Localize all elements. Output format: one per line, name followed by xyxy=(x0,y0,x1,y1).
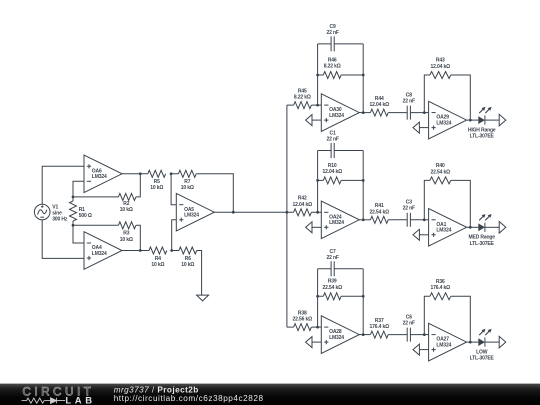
LED MED Range LTL-307EE xyxy=(470,214,499,232)
svg-text:10 kΩ: 10 kΩ xyxy=(151,262,164,268)
junction R39 right xyxy=(362,295,365,298)
wire feedback right column OA30 xyxy=(362,44,364,113)
svg-text:LTL-307EE: LTL-307EE xyxy=(470,134,495,140)
op-amp OA28 LM324 xyxy=(321,316,359,354)
label C6 xyxy=(403,314,415,326)
resistor R5 10k xyxy=(148,170,166,177)
svg-text:R10: R10 xyxy=(328,163,337,169)
resistor R46 8.22 kΩ feedback xyxy=(318,72,364,79)
svg-text:LM324: LM324 xyxy=(92,251,107,257)
svg-text:R38: R38 xyxy=(298,311,307,317)
junction OA29 output xyxy=(469,119,472,122)
svg-text:C3: C3 xyxy=(406,200,412,206)
svg-text:C8: C8 xyxy=(406,92,412,98)
svg-text:R5: R5 xyxy=(154,179,160,185)
voltage source V1 sine 300 Hz xyxy=(34,204,50,220)
svg-text:12.04 kΩ: 12.04 kΩ xyxy=(431,64,451,70)
svg-text:C6: C6 xyxy=(406,314,412,320)
junction R46 right xyxy=(362,74,365,77)
svg-text:176.4 kΩ: 176.4 kΩ xyxy=(431,285,451,291)
svg-text:V1: V1 xyxy=(52,204,58,210)
svg-text:HIGH Range: HIGH Range xyxy=(468,128,496,134)
wire OA5 output to input bus xyxy=(214,211,287,213)
svg-text:22.54 kΩ: 22.54 kΩ xyxy=(431,169,451,175)
svg-text:R44: R44 xyxy=(375,96,384,102)
wire R6 to ground xyxy=(197,251,202,296)
junction R46 left xyxy=(316,74,319,77)
label R5 10 kohm xyxy=(150,179,163,191)
op-amp OA6 LM324 xyxy=(84,155,122,193)
junction OA1 output xyxy=(469,226,472,229)
label R1 500 ohm xyxy=(79,207,92,219)
svg-text:LTL-307EE: LTL-307EE xyxy=(470,356,495,362)
svg-text:http://circuitlab.com/c6z38pp4: http://circuitlab.com/c6z38pp4c2828 xyxy=(114,394,264,403)
junction R4/R6 node xyxy=(170,249,173,252)
wire OA5 + input to R4/R6 node xyxy=(172,220,177,251)
svg-text:R42: R42 xyxy=(298,196,307,202)
label R3 10 kohm xyxy=(120,231,133,243)
wire OA24 output xyxy=(359,219,370,221)
resistor R39 22.54 kΩ feedback xyxy=(318,293,364,300)
svg-text:C1: C1 xyxy=(330,131,336,137)
label R41 xyxy=(370,203,390,215)
svg-text:R45: R45 xyxy=(298,89,307,95)
CircuitLab logo doodle (resistor + diode) xyxy=(22,398,66,404)
junction OA6 output xyxy=(139,172,142,175)
svg-text:R6: R6 xyxy=(185,256,191,262)
wire feedback left column OA24 xyxy=(317,151,319,213)
label R36 xyxy=(431,279,451,291)
label C9 xyxy=(326,24,338,36)
svg-text:10 kΩ: 10 kΩ xyxy=(120,207,133,213)
LED LOW LTL-307EE xyxy=(470,329,499,347)
svg-text:LM324: LM324 xyxy=(329,335,344,341)
resistor R7 10k feedback OA5 xyxy=(171,170,196,177)
svg-text:R36: R36 xyxy=(436,279,445,285)
input terminal flag OA24 + xyxy=(306,222,322,233)
junction OA1 - input xyxy=(423,218,426,221)
svg-text:R1: R1 xyxy=(79,207,85,213)
resistor R4 10k xyxy=(149,247,167,254)
input terminal flag OA30 + xyxy=(306,115,322,126)
svg-text:R39: R39 xyxy=(328,279,337,285)
junction R39 left xyxy=(316,295,319,298)
resistor R40 22.54 kΩ feedback xyxy=(430,177,451,184)
svg-text:R2: R2 xyxy=(123,201,129,207)
label R40 xyxy=(431,163,451,175)
capacitor C3 22 nF xyxy=(388,213,424,227)
label R4 10 kohm xyxy=(151,256,164,268)
svg-text:22 nF: 22 nF xyxy=(326,255,338,261)
label R45 xyxy=(294,89,311,101)
wire R7 to OA5 output xyxy=(196,174,233,212)
svg-text:LM324: LM324 xyxy=(436,121,451,127)
op-amp OA1 LM324 xyxy=(429,209,467,247)
junction bus to MED stage xyxy=(286,211,289,214)
resistor R2 10k feedback OA6 xyxy=(73,193,136,200)
junction OA4 output xyxy=(139,249,142,252)
svg-text:22 nF: 22 nF xyxy=(403,321,415,327)
wire feedback right column OA28 xyxy=(362,269,364,335)
label R43 xyxy=(431,58,451,70)
junction node A (R1 top) xyxy=(72,196,75,199)
resistor R36 176.4 kΩ feedback xyxy=(430,293,451,300)
label C3 xyxy=(403,200,415,212)
junction OA27 - input xyxy=(423,333,426,336)
svg-text:LM324: LM324 xyxy=(436,343,451,349)
wire OA27 output xyxy=(467,341,471,343)
wire feedback right column OA24 xyxy=(362,151,364,220)
svg-text:R4: R4 xyxy=(155,256,161,262)
junction OA28 - input xyxy=(316,326,319,329)
label HIGH Range xyxy=(468,128,496,140)
label R46 xyxy=(324,57,341,69)
capacitor C8 22 nF xyxy=(388,106,424,120)
svg-text:LM324: LM324 xyxy=(92,174,107,180)
junction OA30 - input xyxy=(316,104,319,107)
wire V1 bottom to OA4 + input xyxy=(42,220,84,259)
resistor R37 176.4 kΩ xyxy=(370,331,388,338)
output terminal LOW xyxy=(499,336,506,348)
svg-text:LM324: LM324 xyxy=(329,113,344,119)
wire OA28 output xyxy=(359,334,370,336)
output terminal MED Range xyxy=(499,222,506,234)
svg-text:R7: R7 xyxy=(184,179,190,185)
svg-text:LM324: LM324 xyxy=(184,213,199,219)
svg-text:R3: R3 xyxy=(123,231,129,237)
junction OA28 output xyxy=(362,333,365,336)
label R44 xyxy=(370,96,390,108)
wire feedback loop OA27 xyxy=(424,296,470,342)
junction OA24 - input xyxy=(316,211,319,214)
op-amp OA4 LM324 xyxy=(84,232,122,270)
label R37 xyxy=(370,318,390,330)
resistor R42 12.04 kΩ input xyxy=(287,209,318,216)
svg-text:10 kΩ: 10 kΩ xyxy=(181,262,194,268)
wire R3 to OA4 output xyxy=(136,225,140,250)
svg-text:300 Hz: 300 Hz xyxy=(52,217,68,223)
wire to OA28 - input xyxy=(318,326,322,328)
label R10 xyxy=(322,163,342,175)
svg-text:LAB: LAB xyxy=(65,395,95,405)
op-amp OA30 LM324 xyxy=(321,94,359,132)
label V1 sine 300 Hz xyxy=(52,204,62,216)
svg-text:R41: R41 xyxy=(375,203,384,209)
svg-text:LTL-307EE: LTL-307EE xyxy=(470,241,495,247)
svg-text:LM324: LM324 xyxy=(436,228,451,234)
input terminal flag OA1 + xyxy=(413,229,429,240)
wire feedback left column OA30 xyxy=(317,44,319,105)
output terminal HIGH Range xyxy=(499,114,506,126)
wire OA6 output to R5 xyxy=(122,173,148,175)
svg-text:22 nF: 22 nF xyxy=(403,99,415,105)
svg-text:R43: R43 xyxy=(436,58,445,64)
svg-text:176.4 kΩ: 176.4 kΩ xyxy=(370,324,390,330)
label V1 300 Hz line3 xyxy=(52,217,68,223)
resistor R6 10k xyxy=(172,247,197,254)
svg-text:R46: R46 xyxy=(328,57,337,63)
capacitor C9 22 nF xyxy=(318,36,364,51)
wire to OA29 - input xyxy=(424,112,428,114)
label R7 10 kohm xyxy=(181,179,194,191)
junction R10 right xyxy=(362,179,365,182)
footer bar xyxy=(0,384,540,405)
svg-text:R40: R40 xyxy=(436,163,445,169)
wire to OA27 - input xyxy=(424,334,428,336)
svg-text:8.22 kΩ: 8.22 kΩ xyxy=(324,64,341,70)
resistor R41 22.54 kΩ xyxy=(370,216,388,223)
junction R5/R7 node xyxy=(170,172,173,175)
capacitor C1 22 nF xyxy=(318,143,364,158)
wire to OA1 - input xyxy=(424,219,428,221)
wire OA1 output xyxy=(467,226,471,228)
svg-text:R37: R37 xyxy=(375,318,384,324)
resistor R3 10k feedback OA4 xyxy=(73,222,136,229)
wire input bus vertical xyxy=(286,105,288,327)
svg-text:12.04 kΩ: 12.04 kΩ xyxy=(322,169,342,175)
svg-text:10 kΩ: 10 kΩ xyxy=(120,237,133,243)
input terminal flag OA27 + xyxy=(413,344,429,355)
svg-text:C9: C9 xyxy=(330,24,336,30)
label C8 xyxy=(403,92,415,104)
junction OA29 - input xyxy=(423,111,426,114)
wire OA30 output xyxy=(359,112,370,114)
svg-text:sine: sine xyxy=(52,211,62,217)
svg-text:500 Ω: 500 Ω xyxy=(79,213,92,219)
svg-text:22 nF: 22 nF xyxy=(326,137,338,143)
wire R5/R7 node to OA5 - input xyxy=(171,174,176,205)
wire R2 to OA6 output xyxy=(136,174,140,197)
wire OA4 output to R4 xyxy=(122,250,149,252)
junction R10 left xyxy=(316,179,319,182)
label R42 xyxy=(293,196,313,208)
label R38 xyxy=(293,311,313,323)
junction OA27 output xyxy=(469,341,472,344)
wire feedback left column OA28 xyxy=(317,269,319,327)
resistor R43 12.04 kΩ feedback xyxy=(430,72,451,79)
svg-text:8.22 kΩ: 8.22 kΩ xyxy=(294,95,311,101)
resistor R1 500 ohm xyxy=(70,197,77,225)
wire OA6 - input to node A xyxy=(73,181,84,197)
LED HIGH Range LTL-307EE xyxy=(470,107,499,125)
wire to OA30 - input xyxy=(318,104,322,106)
svg-text:LM324: LM324 xyxy=(329,220,344,226)
svg-text:12.04 kΩ: 12.04 kΩ xyxy=(370,102,390,108)
svg-text:C7: C7 xyxy=(330,249,336,255)
label C1 xyxy=(326,131,338,143)
junction OA5 output xyxy=(232,211,235,214)
junction OA30 output xyxy=(362,111,365,114)
label LOW xyxy=(470,350,495,362)
resistor R10 12.04 kΩ feedback xyxy=(318,177,364,184)
wire V1 top to OA6 + input xyxy=(42,166,84,204)
junction node B (R1 bottom) xyxy=(72,224,75,227)
wire OA29 output xyxy=(467,119,471,121)
svg-text:22 nF: 22 nF xyxy=(326,30,338,36)
label MED Range xyxy=(468,235,495,247)
ground symbol xyxy=(197,295,209,301)
wire to OA24 - input xyxy=(318,211,322,213)
op-amp OA27 LM324 xyxy=(429,323,467,361)
junction OA24 output xyxy=(362,218,365,221)
svg-text:MED Range: MED Range xyxy=(468,235,495,241)
wire OA4 - input to node B xyxy=(73,225,84,243)
wire feedback loop OA1 xyxy=(424,180,470,227)
label R2 10 kohm xyxy=(120,201,133,213)
resistor R45 8.22 kΩ input xyxy=(287,102,318,109)
svg-text:22.56 kΩ: 22.56 kΩ xyxy=(293,317,313,323)
op-amp OA29 LM324 xyxy=(429,101,467,139)
svg-text:12.04 kΩ: 12.04 kΩ xyxy=(293,202,313,208)
op-amp OA24 LM324 xyxy=(321,201,359,239)
capacitor C7 22 nF xyxy=(318,261,364,276)
svg-text:LOW: LOW xyxy=(476,350,488,356)
svg-text:10 kΩ: 10 kΩ xyxy=(181,185,194,191)
op-amp OA5 LM324 xyxy=(176,193,214,231)
input terminal flag OA28 + xyxy=(306,337,322,348)
svg-text:22.54 kΩ: 22.54 kΩ xyxy=(322,285,342,291)
label R6 10 kohm xyxy=(181,256,194,268)
input terminal flag OA29 + xyxy=(413,122,429,133)
svg-text:22.54 kΩ: 22.54 kΩ xyxy=(370,209,390,215)
label R39 xyxy=(322,279,342,291)
wire feedback loop OA29 xyxy=(424,75,470,120)
svg-text:10 kΩ: 10 kΩ xyxy=(150,185,163,191)
resistor R44 12.04 kΩ xyxy=(370,109,388,116)
label C7 xyxy=(326,249,338,261)
resistor R38 22.56 kΩ input xyxy=(287,324,318,331)
svg-text:22 nF: 22 nF xyxy=(403,206,415,212)
capacitor C6 22 nF xyxy=(388,328,424,342)
